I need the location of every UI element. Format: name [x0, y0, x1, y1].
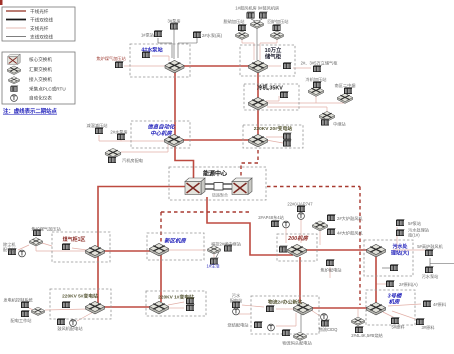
branch blower-switch drop — [319, 230, 321, 245]
branch bldg3 asw rise — [357, 309, 359, 317]
svg-text:200机房: 200机房 — [287, 235, 308, 242]
legend line-types box — [2, 7, 75, 41]
svg-text:配电站: 配电站 — [3, 246, 16, 253]
branch sinter meter rise — [295, 313, 297, 326]
rack 220kv1 a — [186, 297, 195, 304]
branch genrack link — [29, 308, 33, 310]
svg-text:冷机,35KV: 冷机,35KV — [257, 84, 283, 92]
rack south-env — [390, 264, 399, 271]
rack turbine — [108, 156, 117, 163]
rack 2#pump-high — [193, 31, 202, 38]
rack raw-5 — [391, 317, 400, 324]
svg-text:回炉加压站: 回炉加压站 — [268, 18, 289, 25]
branch info room west bus — [99, 140, 166, 142]
room box building3-room — [366, 290, 415, 325]
branch relay drop — [326, 107, 328, 112]
svg-text:南(1#): 南(1#) — [408, 232, 420, 238]
core link aggregation bar — [203, 183, 234, 190]
svg-text:中心机房: 中心机房 — [150, 130, 172, 137]
tp 3#pump drop — [173, 29, 175, 59]
branch sewage north drop — [396, 227, 398, 249]
rack 220kv20 a — [283, 133, 292, 140]
rack 220kv5 inner — [62, 301, 71, 308]
svg-text:1#鼓风机房: 1#鼓风机房 — [235, 5, 256, 12]
tp blower2 link — [259, 19, 262, 21]
svg-text:中继站: 中继站 — [333, 121, 346, 128]
branch press-station drop — [315, 94, 317, 103]
switch 200-room — [288, 244, 307, 257]
tp press rack — [316, 87, 317, 89]
svg-text:3#原料: 3#原料 — [421, 324, 435, 331]
switch south-2 — [337, 93, 352, 103]
instrument ap-747 — [298, 213, 305, 221]
access switch bldg3-west — [352, 317, 365, 325]
svg-text:储气柜: 储气柜 — [264, 53, 282, 61]
switch newarea-room — [150, 243, 169, 256]
rack gasholder inner — [283, 62, 292, 69]
branch asw drop — [35, 245, 37, 251]
rack desuperheater — [95, 127, 104, 134]
svg-text:程控2#线中继站: 程控2#线中继站 — [211, 241, 241, 248]
svg-text:干线光纤: 干线光纤 — [30, 8, 49, 15]
rack raw-3 — [416, 318, 425, 325]
instrument sinter-power — [268, 324, 275, 332]
rack wharf-power — [282, 329, 291, 336]
svg-text:焦炉配电站: 焦炉配电站 — [321, 267, 342, 274]
instrument logistics-east — [321, 314, 328, 322]
svg-text:2#、3#5万立储气柜: 2#、3#5万立储气柜 — [301, 60, 338, 67]
dashed to newarea — [160, 212, 162, 242]
branch gasholder asw link — [42, 243, 52, 246]
trunk info - core1 — [175, 144, 194, 179]
svg-text:物流2#办公新站: 物流2#办公新站 — [268, 299, 302, 306]
svg-text:南区二中烟: 南区二中烟 — [335, 82, 356, 89]
switch 220kv-5 — [86, 301, 105, 314]
dashed core south bus — [161, 211, 250, 213]
svg-text:减温减压站: 减温减压站 — [87, 122, 108, 129]
room box 4#pump-station — [130, 44, 190, 77]
rack south-2 — [344, 87, 353, 94]
room box 200-room — [277, 234, 317, 261]
rack blower-4 — [327, 228, 336, 235]
legend instrument icon — [11, 95, 18, 103]
rack logistics inner — [266, 305, 275, 312]
svg-text:1#泵站: 1#泵站 — [141, 32, 154, 39]
branch recovery drop2 — [259, 43, 261, 60]
rack coke-press — [115, 61, 124, 68]
branch rack drop A — [168, 56, 170, 61]
switch building3-room — [367, 302, 386, 315]
branch bldg3 rack1 link — [383, 312, 395, 318]
trunk gasholder - chiller - 220kv20 — [257, 66, 259, 140]
rack 3#pump-house — [170, 23, 179, 30]
page corner mark — [0, 0, 3, 5]
svg-text:10万立: 10万立 — [265, 46, 282, 54]
branch bldg3 rack2 link — [392, 311, 418, 320]
room box logistics-office — [251, 296, 319, 334]
trunk gasholder1 - newarea — [98, 250, 159, 252]
legend plc rack icon — [10, 85, 18, 91]
svg-text:2#AP48东4站: 2#AP48东4站 — [258, 214, 284, 221]
svg-text:2#水泵(高): 2#水泵(高) — [202, 32, 223, 39]
branch logistics east link — [311, 310, 320, 316]
svg-text:2#大炉鼓风机: 2#大炉鼓风机 — [337, 215, 363, 222]
svg-text:能源中心: 能源中心 — [203, 170, 227, 178]
svg-text:汇聚交换机: 汇聚交换机 — [29, 66, 52, 73]
branch gasholder rack link — [72, 248, 87, 250]
rack 4#pump inner — [142, 51, 151, 58]
svg-text:4#水泵站: 4#水泵站 — [141, 46, 163, 54]
rack blower-2 — [327, 214, 336, 221]
svg-text:3#泵房: 3#泵房 — [167, 18, 180, 25]
tp 1#pump drop — [157, 38, 159, 43]
rack 2#pump-house — [117, 133, 126, 140]
svg-text:4#大炉鼓风机: 4#大炉鼓风机 — [337, 230, 363, 237]
svg-text:采集点PLC或RTU: 采集点PLC或RTU — [29, 86, 66, 93]
branch turbine bus — [121, 151, 168, 153]
rack coke-power — [326, 259, 335, 266]
tp newarea rack link — [214, 252, 219, 261]
svg-text:自动化仪表: 自动化仪表 — [29, 95, 52, 102]
branch ap rack drop — [300, 219, 302, 243]
legend agg switch icon — [7, 66, 20, 75]
legend core switch icon — [8, 54, 20, 64]
rack blower-1 — [247, 12, 256, 19]
svg-text:220KV 1#变电站: 220KV 1#变电站 — [158, 294, 194, 301]
core switch 2 energy-center — [232, 178, 252, 195]
branch relay bus — [267, 106, 327, 108]
branch 5wanli rack — [293, 67, 311, 69]
instrument blower-power — [70, 320, 77, 328]
rack gasholder1 inner — [62, 243, 71, 250]
branch west bus — [36, 250, 98, 252]
tp 2#pump run — [178, 42, 197, 44]
rack desulf — [238, 24, 247, 31]
svg-text:机房: 机房 — [389, 299, 400, 306]
rack bldg3-west — [355, 326, 364, 333]
svg-text:烧结配电站: 烧结配电站 — [228, 322, 249, 329]
rack 5#blast — [425, 249, 434, 256]
svg-text:物流CIDQ: 物流CIDQ — [319, 326, 339, 333]
legend trunk tp sample — [6, 19, 26, 21]
rack sewage-pump — [425, 266, 434, 273]
branch dust rack link — [18, 245, 29, 250]
branch 220kv1 rack2 — [168, 307, 184, 309]
branch recovery run — [260, 42, 277, 44]
branch sinter meter bus — [276, 325, 296, 327]
branch newarea asw bus — [168, 249, 206, 251]
rack blower-9 — [259, 12, 268, 19]
switch 220kv-20 — [249, 134, 268, 147]
room box 220kv-20-substation — [243, 125, 303, 148]
legend access switch icon — [8, 77, 19, 84]
rack logistics-cidq — [321, 320, 330, 327]
tp blower trunk drop — [256, 27, 258, 60]
rack sewage-power — [232, 301, 241, 308]
dashed 220kv20 - core2 — [241, 150, 258, 176]
rack ap-747 — [297, 205, 306, 212]
svg-text:5#泵站: 5#泵站 — [408, 220, 421, 227]
branch bldg3 east link — [388, 304, 421, 306]
svg-text:冷机加压站: 冷机加压站 — [306, 76, 327, 83]
switch chiller-35kv — [249, 97, 268, 110]
legend device box — [2, 52, 75, 104]
switch 4#pump-station — [165, 60, 184, 73]
rack 5#pump — [396, 219, 405, 226]
rack recovery — [273, 24, 282, 31]
tp 1#pump drop2 — [171, 43, 173, 58]
svg-text:干线双绞线: 干线双绞线 — [30, 17, 53, 24]
branch gas-holder rack — [266, 65, 281, 67]
svg-text:1#生活: 1#生活 — [206, 263, 219, 270]
branch chiller rack — [266, 100, 279, 102]
svg-text:焦炉煤气加压站: 焦炉煤气加压站 — [96, 55, 125, 62]
tp wharf drop — [300, 312, 302, 332]
svg-text:发电机控制系统: 发电机控制系统 — [3, 297, 32, 304]
trunk info - 220kv20 — [175, 139, 258, 141]
instrument ap-48 — [283, 221, 290, 229]
svg-text:2#原料(A): 2#原料(A) — [399, 281, 418, 288]
switch relay-station — [319, 111, 334, 121]
trunk sewage - bldg3 — [375, 254, 377, 306]
svg-text:理站(大): 理站(大) — [391, 250, 410, 257]
branch 4#pump well to switch — [124, 65, 166, 67]
trunk logistics - bldg3 — [306, 307, 374, 309]
branch raw rack link — [376, 283, 388, 285]
switch 220kv-1 — [150, 301, 169, 314]
svg-text:4#原料: 4#原料 — [433, 301, 447, 308]
svg-text:22#(A)AP747: 22#(A)AP747 — [287, 202, 313, 207]
branch sewage-meter link — [242, 305, 264, 307]
branch south2 drop — [344, 101, 346, 103]
tp blower1 link — [251, 19, 255, 21]
svg-text:脱硫加压站: 脱硫加压站 — [224, 18, 245, 25]
branch 220kv20 rack2 — [266, 140, 283, 143]
rack chiller-press — [313, 81, 322, 88]
switch sewage-plant — [367, 244, 386, 257]
svg-text:2#4L4K,5#B烧结: 2#4L4K,5#B烧结 — [351, 332, 382, 339]
dashed core2 east — [267, 186, 360, 188]
rack 220kv1 b — [186, 304, 195, 311]
access switch blower-house — [251, 20, 264, 28]
access switch coke-gas-press — [30, 238, 43, 246]
branch recovery drop — [276, 38, 278, 43]
access switch newarea-pcx — [208, 246, 221, 254]
instrument dust-removal — [19, 250, 26, 258]
svg-text:新区机房: 新区机房 — [164, 238, 186, 245]
trunk core1 west riser — [98, 187, 187, 307]
svg-text:接入交换机: 接入交换机 — [29, 76, 52, 83]
tp south env link — [382, 267, 392, 269]
svg-text:3号楼: 3号楼 — [388, 293, 403, 300]
branch newarea rack drop — [213, 253, 215, 258]
branch 220kv5 asw link — [45, 309, 88, 310]
rack raw-2 — [386, 280, 395, 287]
switch turbine-house — [105, 148, 121, 158]
room box info-automation-center — [131, 121, 190, 148]
rack newarea-pcx — [224, 245, 233, 252]
room box 220kv-5-substation — [50, 289, 111, 319]
rack chiller inner — [280, 91, 289, 98]
branch desup rack drop — [98, 135, 100, 141]
svg-text:配电工作站: 配电工作站 — [11, 317, 32, 324]
svg-text:220KV 20#变电站: 220KV 20#变电站 — [254, 125, 293, 132]
access switch wharf — [294, 332, 307, 340]
svg-text:焦炉煤气加压站: 焦炉煤气加压站 — [31, 226, 60, 233]
legend branch fiber sample — [6, 27, 26, 29]
branch desulf drop — [241, 38, 243, 43]
switch blower-group — [312, 221, 327, 231]
access switch desulf-press — [236, 31, 249, 39]
rack 1#pump-station — [154, 30, 163, 37]
rack dust-removal — [8, 248, 17, 255]
trunk 4#pump gasholder and info riser — [175, 66, 257, 140]
rack coke-gas — [33, 229, 42, 236]
svg-text:5#高炉鼓风机: 5#高炉鼓风机 — [417, 243, 443, 250]
room box gasholder-area1 — [52, 232, 110, 262]
switch info-automation — [165, 134, 184, 147]
rack 5wanli — [313, 65, 322, 72]
svg-text:污水泵站: 污水泵站 — [422, 273, 439, 280]
branch chiller rack drop — [278, 96, 280, 101]
svg-text:链路聚合: 链路聚合 — [212, 192, 228, 198]
legend branch tp sample — [6, 36, 26, 38]
svg-text:注：虚线表示二期站点: 注：虚线表示二期站点 — [3, 107, 58, 115]
svg-text:物流码头配电站: 物流码头配电站 — [282, 340, 311, 347]
tp 1#pump run — [158, 42, 172, 44]
rack generator b — [21, 310, 30, 317]
branch coke rack drop — [329, 267, 331, 278]
branch blower meter link — [77, 311, 95, 321]
rack 1#living — [210, 258, 219, 265]
svg-text:鼓风机配电站: 鼓风机配电站 — [57, 325, 82, 332]
svg-text:2#水泵房: 2#水泵房 — [110, 129, 127, 136]
rack blower-power — [57, 318, 66, 325]
rack relay — [321, 119, 330, 126]
branch turbine rise — [167, 144, 169, 152]
tp relay rack — [325, 118, 327, 119]
rack 200room inner — [279, 246, 288, 253]
svg-text:5#原料: 5#原料 — [391, 324, 405, 331]
core switch 1 energy-center — [185, 178, 205, 195]
rack generator a — [21, 301, 30, 308]
branch ap2 rack drop — [285, 227, 287, 243]
rack sewage-south1 — [396, 229, 405, 236]
instrument sewage-power — [233, 308, 240, 316]
room box 100k-gasholder — [240, 45, 295, 76]
switch logistics-office — [294, 302, 313, 315]
dashed east riser — [359, 187, 361, 306]
room box newarea-room — [147, 233, 204, 260]
svg-text:支线光纤: 支线光纤 — [30, 25, 49, 32]
branch logistics rack link — [276, 308, 294, 310]
svg-text:220KV 5#变电站: 220KV 5#变电站 — [62, 293, 98, 300]
switch 100k-gasholder — [249, 60, 268, 73]
tp south2 rack — [345, 93, 348, 95]
branch rack to switch A — [152, 55, 169, 57]
rack sinter-power — [254, 321, 263, 328]
trunk 200room - logistics — [299, 257, 301, 303]
svg-text:煤气柜1区: 煤气柜1区 — [63, 236, 86, 243]
trunk 200room - sewage — [306, 249, 367, 251]
tp 2#pump drop2 — [177, 43, 179, 58]
branch chiller east bus — [267, 102, 344, 104]
svg-text:支线双绞线: 支线双绞线 — [30, 34, 53, 41]
room box sewage-plant — [364, 240, 413, 276]
branch desulf drop2 — [253, 43, 255, 60]
trunk newarea - 220kv1 — [160, 255, 162, 302]
room box chiller-35kv — [244, 84, 299, 110]
switch chiller-press — [308, 86, 323, 96]
svg-text:9#鼓风机房: 9#鼓风机房 — [258, 5, 279, 12]
svg-text:核心交换机: 核心交换机 — [29, 56, 52, 63]
room box 220kv-1-substation — [146, 291, 206, 316]
tp far-right run — [430, 263, 454, 265]
switch gasholder-area1 — [86, 245, 105, 258]
access switch recovery-press — [271, 31, 284, 39]
legend trunk fiber sample — [6, 10, 26, 12]
rack 220kv20 b — [283, 140, 292, 147]
rack ap-48 — [271, 220, 280, 227]
branch desulf run — [242, 42, 254, 44]
tp far-right riser — [429, 258, 431, 266]
rack raw-4 — [423, 300, 432, 307]
branch sewage meter link2 — [236, 313, 251, 315]
branch 220kv20 rack1 — [266, 136, 283, 138]
svg-text:污水处: 污水处 — [392, 243, 408, 250]
svg-text:汽机房配电: 汽机房配电 — [122, 157, 144, 164]
trunk 220kv5 - 220kv1 — [95, 306, 159, 308]
trunk core - 200room — [207, 197, 293, 255]
tp 2#pump drop — [196, 38, 198, 43]
svg-text:配电站: 配电站 — [230, 297, 243, 304]
branch 220kv1 rack1 — [168, 302, 184, 305]
room box energy-center — [169, 167, 266, 200]
branch pumphouse rack drop — [120, 139, 122, 141]
access switch generator-control — [32, 307, 45, 315]
svg-text:信息自动化: 信息自动化 — [148, 124, 177, 131]
branch sewage east bus — [393, 249, 425, 251]
